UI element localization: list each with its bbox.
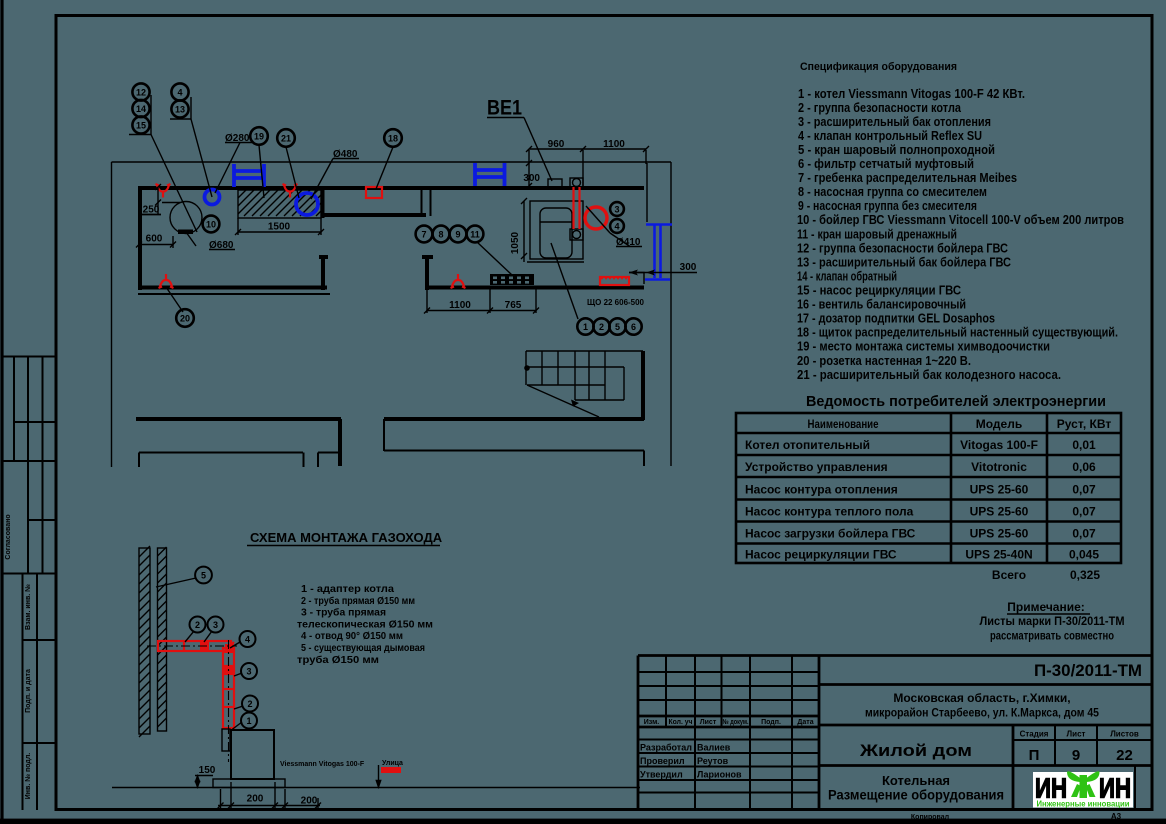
- svg-text:0,045: 0,045: [1069, 548, 1099, 562]
- svg-text:Листы марки П-30/2011-ТМ: Листы марки П-30/2011-ТМ: [980, 614, 1125, 628]
- svg-text:№ докум.: № докум.: [723, 718, 749, 726]
- svg-text:Лист: Лист: [1067, 730, 1086, 739]
- svg-text:Согласовано: Согласовано: [5, 514, 12, 559]
- svg-text:UPS 25-40N: UPS 25-40N: [965, 548, 1032, 562]
- svg-text:Спецификация оборудования: Спецификация оборудования: [800, 61, 957, 73]
- svg-text:6 - фильтр сетчатый муфтовый: 6 - фильтр сетчатый муфтовый: [798, 157, 974, 171]
- svg-text:7: 7: [421, 229, 426, 239]
- svg-text:4 - клапан контрольный Reflex: 4 - клапан контрольный Reflex SU: [798, 129, 982, 143]
- svg-text:Насос контура отопления: Насос контура отопления: [745, 483, 898, 497]
- svg-text:Ведомость потребителей электро: Ведомость потребителей электроэнергии: [806, 394, 1106, 410]
- svg-text:труба Ø150 мм: труба Ø150 мм: [297, 654, 379, 666]
- svg-text:0,07: 0,07: [1072, 505, 1096, 519]
- svg-text:П: П: [1029, 747, 1040, 764]
- svg-text:5: 5: [615, 322, 620, 332]
- svg-text:Котел отопительный: Котел отопительный: [745, 438, 870, 452]
- svg-text:СХЕМА МОНТАЖА ГАЗОХОДА: СХЕМА МОНТАЖА ГАЗОХОДА: [250, 530, 443, 545]
- svg-text:5 - кран шаровый полнопроходно: 5 - кран шаровый полнопроходной: [798, 143, 995, 157]
- svg-text:8 - насосная группа со смесите: 8 - насосная группа со смесителем: [798, 185, 987, 199]
- svg-text:1100: 1100: [603, 139, 625, 150]
- svg-text:Жилой дом: Жилой дом: [859, 741, 972, 760]
- svg-text:5: 5: [201, 570, 206, 580]
- svg-text:4: 4: [614, 221, 619, 231]
- svg-text:А3: А3: [1111, 812, 1122, 821]
- svg-text:18: 18: [388, 133, 398, 143]
- svg-text:12: 12: [136, 87, 146, 97]
- svg-text:7 - гребенка распределительная: 7 - гребенка распределительная Meibes: [798, 171, 1017, 185]
- svg-text:200: 200: [247, 794, 264, 805]
- svg-text:14 - клапан обратный: 14 - клапан обратный: [797, 269, 897, 283]
- svg-text:22: 22: [1116, 747, 1133, 764]
- svg-text:Улица: Улица: [382, 760, 403, 767]
- svg-text:960: 960: [548, 139, 565, 150]
- svg-text:17 - дозатор подпитки GEL Dosa: 17 - дозатор подпитки GEL Dosaphos: [797, 312, 995, 326]
- svg-text:рассматривать совместно: рассматривать совместно: [990, 629, 1114, 643]
- svg-text:Руст, КВт: Руст, КВт: [1057, 417, 1112, 431]
- svg-text:0,07: 0,07: [1072, 527, 1096, 541]
- svg-text:микрорайон Старбеево, ул. К.Ма: микрорайон Старбеево, ул. К.Маркса, дом …: [865, 706, 1099, 720]
- svg-text:765: 765: [505, 300, 522, 311]
- svg-text:UPS 25-60: UPS 25-60: [970, 505, 1029, 519]
- svg-text:1 - котел Viessmann Vitogas 10: 1 - котел Viessmann Vitogas 100-F 42 КВт…: [798, 87, 1025, 101]
- svg-text:4 - отвод 90° Ø150 мм: 4 - отвод 90° Ø150 мм: [301, 631, 403, 642]
- svg-text:12 - группа безопасности бойле: 12 - группа безопасности бойлера ГВС: [797, 241, 1008, 255]
- svg-text:13: 13: [175, 104, 185, 114]
- svg-text:2 - труба прямая Ø150 мм: 2 - труба прямая Ø150 мм: [301, 595, 415, 607]
- svg-text:19: 19: [254, 131, 264, 141]
- svg-text:1: 1: [583, 322, 588, 332]
- svg-text:1 - адаптер котла: 1 - адаптер котла: [301, 584, 394, 595]
- svg-text:Изм.: Изм.: [644, 719, 660, 726]
- svg-text:Листов: Листов: [1110, 730, 1139, 739]
- svg-text:2: 2: [195, 620, 200, 630]
- svg-text:Инженерные инновации: Инженерные инновации: [1037, 799, 1130, 809]
- svg-text:Устройство управления: Устройство управления: [745, 460, 888, 474]
- svg-text:Ларионов: Ларионов: [697, 770, 742, 780]
- svg-text:21: 21: [281, 133, 291, 143]
- svg-text:Разработал: Разработал: [640, 743, 692, 753]
- svg-text:Viessmann Vitogas 100-F: Viessmann Vitogas 100-F: [280, 761, 365, 768]
- svg-text:16 - вентиль балансировочный: 16 - вентиль балансировочный: [797, 298, 966, 312]
- svg-text:300: 300: [680, 262, 697, 273]
- svg-text:Копировал: Копировал: [911, 814, 949, 821]
- svg-text:1100: 1100: [449, 300, 471, 311]
- svg-text:Проверил: Проверил: [640, 756, 685, 766]
- svg-text:Всего: Всего: [992, 568, 1026, 582]
- svg-text:Насос рециркуляции ГВС: Насос рециркуляции ГВС: [745, 548, 897, 562]
- svg-text:15 - насос рециркуляции ГВС: 15 - насос рециркуляции ГВС: [797, 284, 961, 298]
- svg-text:ВЕ1: ВЕ1: [487, 97, 522, 120]
- svg-text:10 - бойлер ГВС Viessmann Vito: 10 - бойлер ГВС Viessmann Vitocell 100-V…: [797, 213, 1124, 227]
- svg-text:2: 2: [247, 699, 252, 709]
- svg-text:Модель: Модель: [976, 417, 1022, 431]
- svg-text:3: 3: [213, 620, 218, 630]
- svg-text:9: 9: [1072, 747, 1080, 764]
- svg-text:15: 15: [136, 120, 146, 130]
- svg-text:5 - существующая дымовая: 5 - существующая дымовая: [301, 643, 425, 654]
- svg-text:0,325: 0,325: [1070, 568, 1100, 582]
- svg-text:Подп.: Подп.: [761, 719, 781, 726]
- svg-text:телескопическая Ø150 мм: телескопическая Ø150 мм: [297, 619, 433, 630]
- svg-text:Московская область, г.Химки,: Московская область, г.Химки,: [893, 691, 1070, 705]
- svg-text:20 - розетка настенная 1~220 В: 20 - розетка настенная 1~220 В.: [797, 354, 971, 368]
- svg-text:Дата: Дата: [797, 719, 813, 726]
- svg-text:Лист: Лист: [700, 719, 717, 726]
- svg-text:9 - насосная группа без смесит: 9 - насосная группа без смесителя: [798, 199, 977, 213]
- svg-text:14: 14: [136, 104, 146, 114]
- svg-text:Подп. и дата: Подп. и дата: [25, 669, 32, 713]
- svg-text:0,01: 0,01: [1072, 438, 1096, 452]
- svg-text:UPS 25-60: UPS 25-60: [970, 483, 1029, 497]
- svg-text:10: 10: [206, 219, 216, 229]
- svg-text:3: 3: [246, 666, 251, 676]
- svg-text:200: 200: [301, 796, 318, 807]
- svg-text:8: 8: [438, 229, 443, 239]
- svg-text:11 - кран шаровый дренажный: 11 - кран шаровый дренажный: [797, 227, 957, 241]
- svg-text:0,06: 0,06: [1072, 460, 1096, 474]
- svg-text:6: 6: [631, 322, 636, 332]
- svg-text:300: 300: [523, 173, 540, 184]
- svg-text:Размещение оборудования: Размещение оборудования: [828, 788, 1004, 803]
- svg-text:9: 9: [455, 229, 460, 239]
- svg-text:П-30/2011-ТМ: П-30/2011-ТМ: [1034, 661, 1142, 680]
- svg-text:Котельная: Котельная: [882, 773, 950, 788]
- svg-text:Vitogas 100-F: Vitogas 100-F: [960, 438, 1038, 452]
- svg-text:600: 600: [146, 234, 163, 245]
- svg-text:Наименование: Наименование: [808, 417, 879, 431]
- svg-text:Примечание:: Примечание:: [1007, 600, 1085, 614]
- svg-text:20: 20: [180, 313, 190, 323]
- svg-text:2: 2: [599, 322, 604, 332]
- svg-text:ЩО 22 606-500: ЩО 22 606-500: [587, 298, 645, 307]
- svg-text:150: 150: [199, 765, 216, 776]
- svg-text:Vitotronic: Vitotronic: [971, 460, 1027, 474]
- svg-text:Взам. инв. №: Взам. инв. №: [24, 584, 32, 630]
- svg-text:1050: 1050: [510, 231, 521, 254]
- svg-text:1: 1: [246, 716, 251, 726]
- svg-text:Валиев: Валиев: [697, 743, 731, 753]
- svg-text:4: 4: [245, 634, 250, 644]
- svg-text:19 - место монтажа системы хим: 19 - место монтажа системы химводоочистк…: [797, 340, 1050, 354]
- svg-text:11: 11: [470, 229, 480, 239]
- svg-text:Насос контура теплого пола: Насос контура теплого пола: [745, 505, 914, 519]
- svg-text:UPS 25-60: UPS 25-60: [970, 527, 1029, 541]
- svg-text:Реутов: Реутов: [697, 756, 729, 766]
- svg-text:4: 4: [177, 87, 182, 97]
- svg-text:3: 3: [614, 204, 619, 214]
- svg-text:13 - расширительный бак бойлер: 13 - расширительный бак бойлера ГВС: [797, 255, 1011, 269]
- svg-text:21 - расширительный бак колоде: 21 - расширительный бак колодезного насо…: [797, 368, 1061, 382]
- svg-text:Утвердил: Утвердил: [640, 770, 683, 780]
- svg-text:0,07: 0,07: [1072, 483, 1096, 497]
- svg-text:Стадия: Стадия: [1020, 730, 1049, 739]
- svg-text:Кол. уч: Кол. уч: [669, 719, 693, 726]
- svg-text:2 - группа безопасности котла: 2 - группа безопасности котла: [798, 101, 962, 115]
- svg-text:Насос загрузки бойлера ГВС: Насос загрузки бойлера ГВС: [745, 527, 916, 541]
- svg-text:Инв. № подл.: Инв. № подл.: [24, 753, 32, 800]
- svg-text:1500: 1500: [268, 222, 291, 233]
- svg-text:18 - щиток распределительный н: 18 - щиток распределительный настенный с…: [797, 326, 1118, 340]
- svg-text:3 - расширительный бак отоплен: 3 - расширительный бак отопления: [798, 115, 991, 129]
- svg-text:3 - труба прямая: 3 - труба прямая: [301, 607, 386, 619]
